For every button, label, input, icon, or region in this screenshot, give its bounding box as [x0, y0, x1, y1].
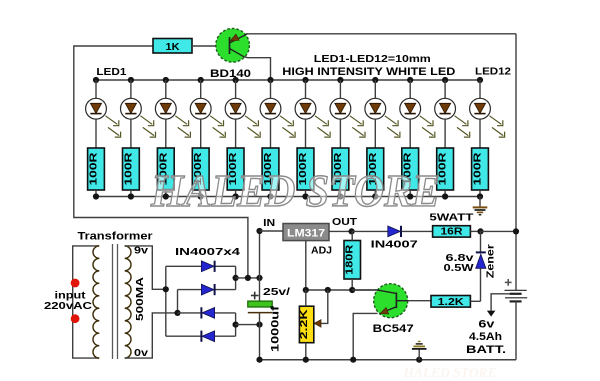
svg-text:IN: IN — [263, 217, 275, 229]
diode D15 IN4007 — [201, 307, 214, 318]
node junction DC+ / cap / LM317 IN riser — [256, 275, 262, 281]
wiper wire of 2.2K — [321, 290, 328, 323]
LED D3 (10mm white LED) — [155, 98, 176, 119]
svg-text:input: input — [55, 291, 87, 302]
wire LED4 cathode to resistor — [200, 119, 202, 148]
ground (bus reference, pointing up) — [412, 342, 427, 349]
resistor R17 1.2K — [431, 296, 470, 308]
node LED column 6 bottom junction — [267, 193, 273, 199]
wire LED bus to ground — [479, 197, 481, 208]
terminal dot input top — [71, 279, 80, 288]
wire LED3 cathode to resistor — [165, 119, 167, 148]
svg-text:500MA: 500MA — [135, 276, 146, 321]
wire resistor #2 to bottom bus — [130, 190, 132, 197]
wire LED9 anode lead — [374, 80, 376, 98]
plus sign of capacitor — [251, 292, 259, 300]
bridge inner rail wire — [177, 290, 179, 313]
wire LED4 anode lead — [200, 80, 202, 98]
wire 16R to zener node — [470, 230, 480, 232]
svg-text:BD140: BD140 — [210, 68, 251, 80]
plus sign of battery — [505, 279, 512, 286]
wire resistor #5 to bottom bus — [235, 190, 237, 197]
wire resistor #10 to bottom bus — [409, 190, 411, 197]
resistor 100R #11 — [437, 148, 454, 190]
svg-text:220vAC: 220vAC — [44, 301, 93, 312]
wire resistor #7 to bottom bus — [305, 190, 307, 197]
diode D16 lead wires — [166, 335, 202, 337]
svg-text:ADJ: ADJ — [311, 245, 332, 257]
svg-text:25v/: 25v/ — [263, 287, 290, 298]
zener diode ZD1 6.8v — [476, 252, 486, 268]
resistor 100R #9 — [367, 148, 384, 190]
svg-text:HIGH INTENSITY WHITE LED: HIGH INTENSITY WHITE LED — [282, 66, 455, 78]
LED D10 (10mm white LED) — [400, 98, 421, 119]
wire IN to LM317 — [260, 230, 284, 232]
LED D11 (10mm white LED) — [435, 98, 456, 119]
resistor 100R #1 — [88, 148, 105, 190]
wire zener anode lead — [480, 268, 482, 301]
transformer core — [112, 244, 114, 359]
wire D17 to 16R — [402, 230, 433, 232]
resistor 100R #8 — [332, 148, 349, 190]
wire resistor #8 to bottom bus — [339, 190, 341, 197]
wire LED3 anode lead — [165, 80, 167, 98]
node DC- junction on cap lead — [256, 322, 262, 328]
node LED column 3 bottom junction — [163, 193, 169, 199]
resistor 100R #7 — [297, 148, 314, 190]
LED D12 (10mm white LED) — [470, 98, 491, 119]
wire LED7 cathode to resistor — [305, 119, 307, 148]
wire secondary 9v to bridge AC1 — [125, 246, 166, 289]
wire 1.2K to zener anode — [470, 300, 480, 302]
wire BC547 emitter to bus — [353, 313, 377, 359]
trimpot R15 2.2K — [299, 306, 313, 343]
wire ground stub — [418, 349, 420, 359]
LED D8 (10mm white LED) — [330, 98, 351, 119]
diode D14 lead wires — [178, 289, 202, 291]
node LED column 11 bottom junction — [442, 193, 448, 199]
transformer T1 primary winding — [93, 246, 99, 358]
svg-text:LM317: LM317 — [287, 228, 325, 240]
wire LM317 OUT — [329, 230, 352, 232]
svg-text:LED1: LED1 — [96, 67, 126, 78]
svg-text:OUT: OUT — [332, 216, 358, 228]
bridge right rail upper wire — [235, 266, 237, 289]
node OUT junction — [349, 228, 355, 234]
wire resistor #9 to bottom bus — [374, 190, 376, 197]
light arrows of LED11 — [455, 116, 470, 137]
capacitor C1 - plate — [248, 312, 272, 314]
wire LED12 cathode to resistor — [479, 119, 481, 148]
LED bottom bus — [96, 196, 480, 198]
resistor 100R #10 — [402, 148, 419, 190]
regulator U1 LM317 — [283, 224, 329, 241]
node zener top junction — [477, 228, 483, 234]
wire BD140 collector to LED top bus — [244, 57, 271, 80]
wire resistor #11 to bottom bus — [444, 190, 446, 197]
wire LED8 anode lead — [339, 80, 341, 98]
wire 2.2K bottom lead to bus — [305, 343, 307, 360]
wire LED9 cathode to resistor — [374, 119, 376, 148]
svg-text:1000uf: 1000uf — [270, 306, 282, 352]
wire LED6 anode lead — [270, 80, 272, 98]
node LED column 1 bottom junction — [93, 193, 99, 199]
LED D9 (10mm white LED) — [365, 98, 386, 119]
light arrows of LED12 — [490, 116, 505, 137]
node LED column 5 bottom junction — [233, 193, 239, 199]
node LED column 1 top junction — [93, 77, 99, 83]
diode D13 lead wires — [166, 265, 202, 267]
svg-text:4.5Ah: 4.5Ah — [469, 331, 502, 343]
bridge left rail wire — [165, 266, 167, 336]
svg-text:Zener: Zener — [486, 244, 497, 278]
wire LED6 cathode to resistor — [270, 119, 272, 148]
LED D5 (10mm white LED) — [225, 98, 246, 119]
node LED column 2 top junction — [128, 77, 134, 83]
svg-text:180R: 180R — [345, 244, 356, 275]
wire BD140 emitter to right rail (top horizontal) — [246, 33, 516, 35]
wire LED1 cathode to resistor — [95, 119, 97, 148]
svg-text:100R: 100R — [89, 151, 100, 185]
node LED column 4 bottom junction — [198, 193, 204, 199]
node AC1 junction — [163, 286, 169, 292]
node LED column 6 top junction — [267, 77, 273, 83]
svg-text:100R: 100R — [473, 151, 484, 185]
svg-text:IN4007x4: IN4007x4 — [175, 247, 240, 258]
bottom common bus wire — [260, 359, 517, 361]
wire 180R bottom lead — [351, 279, 353, 290]
LED D1 (10mm white LED) — [86, 98, 107, 119]
wire OUT to diode D17 — [352, 230, 388, 232]
wire base feed to BC547 — [352, 289, 377, 291]
svg-text:100R: 100R — [123, 151, 134, 185]
node LED column 12 bottom junction — [477, 193, 483, 199]
svg-text:9v: 9v — [134, 246, 149, 257]
node LED column 2 bottom junction — [128, 193, 134, 199]
diode D13 IN4007 — [201, 261, 214, 272]
node LED column 10 bottom junction — [407, 193, 413, 199]
node LED column 10 top junction — [407, 77, 413, 83]
node LED column 8 bottom junction — [337, 193, 343, 199]
node right rail junction — [513, 228, 519, 234]
wire resistor #6 to bottom bus — [270, 190, 272, 197]
light arrows of LED10 — [420, 116, 435, 137]
node ground on bus — [416, 357, 422, 363]
light arrows of LED9 — [385, 116, 400, 137]
wire from node IN up-left to 1K (raw DC+ feed) — [74, 46, 248, 278]
light arrows of LED4 — [210, 116, 225, 137]
wire LED8 cathode to resistor — [339, 119, 341, 148]
light arrows of LED7 — [315, 116, 330, 137]
node LED column 11 top junction — [442, 77, 448, 83]
LED D2 (10mm white LED) — [120, 98, 141, 119]
resistor 100R #2 — [123, 148, 140, 190]
node 180R bottom junction — [349, 287, 355, 293]
node LED column 12 top junction — [477, 77, 483, 83]
node LED column 9 bottom junction — [372, 193, 378, 199]
node IN junction — [256, 228, 262, 234]
light arrows of LED1 — [106, 116, 121, 137]
node DC- out of bridge — [233, 322, 239, 328]
wire 180R top lead — [351, 231, 353, 240]
wire battery tap with arrow — [491, 294, 510, 311]
transformer T1 primary bracket wire — [73, 246, 99, 358]
node LED column 7 top junction — [302, 77, 308, 83]
diode D16 IN4007 — [201, 331, 214, 342]
node LED column 7 bottom junction — [302, 193, 308, 199]
wire cap + lead — [259, 278, 261, 301]
svg-text:1K: 1K — [166, 41, 180, 53]
wire resistor #4 to bottom bus — [200, 190, 202, 197]
wire riser to LM317 IN — [259, 231, 261, 278]
wire secondary 0v to bridge AC2 — [125, 313, 178, 358]
wire right rail down to battery + — [515, 34, 517, 291]
transformer T1 secondary winding — [125, 246, 131, 358]
diode D17 IN4007 — [388, 226, 401, 237]
node cap on bus — [256, 357, 262, 363]
LED top bus — [96, 79, 480, 81]
node 2.2K on bus — [303, 357, 309, 363]
wire zener node to right rail — [481, 230, 515, 232]
node DC+ out of bridge — [233, 275, 239, 281]
wire LED10 cathode to resistor — [409, 119, 411, 148]
wire LED11 cathode to resistor — [444, 119, 446, 148]
resistor R16 16R 5W — [433, 226, 471, 237]
wire battery - to bottom bus — [515, 301, 517, 359]
svg-text:0.5W: 0.5W — [444, 263, 474, 274]
resistor 100R #3 — [157, 148, 174, 190]
wire DC- to capacitor lead — [236, 324, 260, 326]
wire resistor #1 to bottom bus — [95, 190, 97, 197]
node ADJ junction — [303, 287, 309, 293]
wire LED1 anode lead — [95, 80, 97, 98]
bridge right rail lower wire — [235, 313, 237, 336]
resistor 100R #6 — [262, 148, 279, 190]
battery BT1 6v 4.5Ah plates — [505, 290, 528, 301]
light arrows of LED6 — [280, 116, 295, 137]
wire cap - lead to bottom bus — [259, 313, 261, 360]
diode D14 IN4007 — [201, 284, 214, 295]
resistor 100R #4 — [192, 148, 209, 190]
wire LED2 anode lead — [130, 80, 132, 98]
resistor R13 1K (base resistor) — [153, 39, 192, 54]
node wiper junction — [325, 287, 331, 293]
resistor 100R #12 — [472, 148, 489, 190]
node junction raw DC+ / feed wire — [245, 275, 251, 281]
wire ADJ row — [306, 289, 377, 291]
wire LED11 anode lead — [444, 80, 446, 98]
capacitor C1 1000uF 25v + plate — [248, 301, 272, 307]
svg-text:HALED STORE: HALED STORE — [150, 165, 440, 216]
wire LED5 anode lead — [235, 80, 237, 98]
wire resistor #12 to bottom bus — [479, 190, 481, 197]
svg-text:IN4007: IN4007 — [371, 240, 418, 251]
transistor Q1 BD140 PNP — [216, 29, 250, 63]
wire zener cathode lead — [480, 231, 482, 252]
wire resistor #3 to bottom bus — [165, 190, 167, 197]
wire DC+ rail — [236, 277, 260, 279]
light arrows of LED5 — [245, 116, 260, 137]
transistor Q2 BC547 NPN — [374, 284, 408, 318]
svg-text:LED1-LED12=10mm: LED1-LED12=10mm — [314, 54, 431, 65]
node emitter on bus — [350, 357, 356, 363]
wire 1K to BD140 base — [192, 45, 230, 47]
wire LED2 cathode to resistor — [130, 119, 132, 148]
light arrows of LED8 — [350, 116, 365, 137]
wire LED12 anode lead — [479, 80, 481, 98]
wire BC547 collector to 1.2K — [408, 300, 431, 302]
light arrows of LED2 — [140, 116, 155, 137]
wiper arrow of 2.2K — [314, 320, 321, 328]
svg-text:HALED STORE: HALED STORE — [402, 365, 496, 380]
wire 2.2K top lead — [305, 290, 307, 306]
svg-text:0v: 0v — [134, 348, 149, 359]
wire LED7 anode lead — [305, 80, 307, 98]
svg-text:2.2K: 2.2K — [299, 309, 310, 340]
svg-text:BC547: BC547 — [373, 323, 414, 335]
svg-text:1.2K: 1.2K — [438, 297, 465, 308]
node LED column 9 top junction — [372, 77, 378, 83]
light arrows of LED3 — [175, 116, 190, 137]
LED D4 (10mm white LED) — [190, 98, 211, 119]
ground (LED bus return) — [473, 207, 488, 214]
svg-text:BATT.: BATT. — [466, 344, 506, 356]
node LED column 5 top junction — [233, 77, 239, 83]
resistor 100R #5 — [227, 148, 244, 190]
wire LED10 anode lead — [409, 80, 411, 98]
node LED column 8 top junction — [337, 77, 343, 83]
terminal dot input bottom — [71, 314, 80, 323]
node AC2 junction — [174, 310, 180, 316]
LED D6 (10mm white LED) — [260, 98, 281, 119]
wire LM317 ADJ pin — [305, 241, 307, 290]
node LED column 4 top junction — [198, 77, 204, 83]
svg-text:16R: 16R — [441, 227, 464, 238]
resistor R14 180R — [344, 241, 361, 280]
LED D7 (10mm white LED) — [295, 98, 316, 119]
diode D15 lead wires — [178, 312, 202, 314]
svg-text:LED12: LED12 — [475, 67, 511, 78]
wire LED5 cathode to resistor — [235, 119, 237, 148]
svg-text:Transformer: Transformer — [78, 230, 153, 242]
svg-text:6v: 6v — [478, 319, 494, 331]
node LED column 3 top junction — [163, 77, 169, 83]
